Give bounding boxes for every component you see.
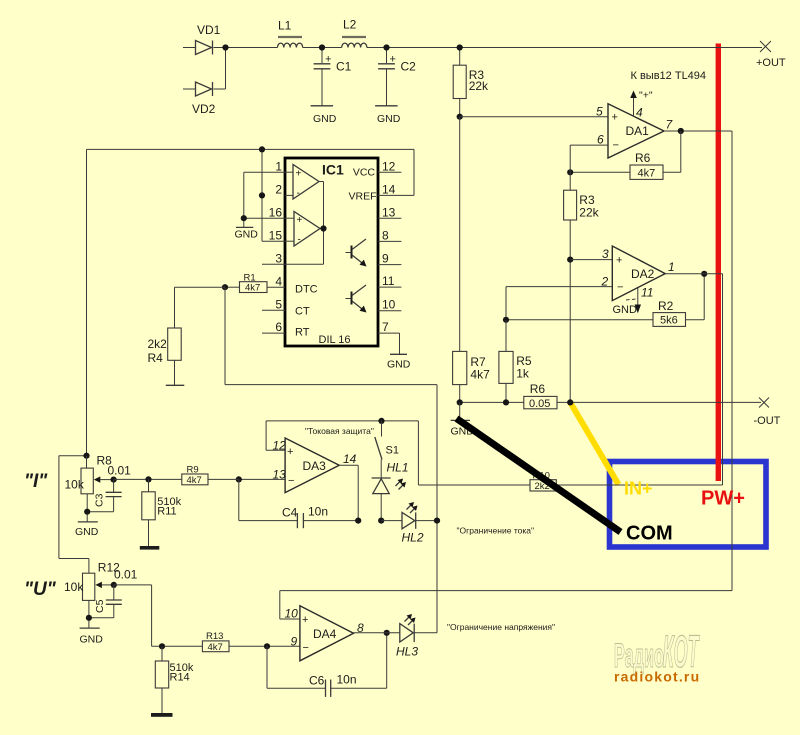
svg-text:"U": "U" xyxy=(24,579,57,600)
svg-text:R1: R1 xyxy=(244,273,256,284)
ground (IC1 pins 1,16) xyxy=(235,227,259,240)
potentiometer R12 (10k) xyxy=(64,561,120,628)
IC U1 TL494 body xyxy=(285,158,378,346)
svg-text:11: 11 xyxy=(382,274,395,288)
wire: U wiper to R13 rail xyxy=(114,585,203,646)
node: DA2 output xyxy=(701,271,707,277)
op-amp DA4 xyxy=(285,606,365,661)
wire: DA2 pin3 input xyxy=(570,259,612,261)
wire: pins 1/16 to GND xyxy=(244,172,285,227)
resistor R6 (4k7 feedback) xyxy=(570,151,681,180)
node: R8 wiper xyxy=(111,477,117,483)
diode VD1 xyxy=(196,23,221,55)
ground (R11, chassis bar) xyxy=(140,546,160,550)
node: DA1 output xyxy=(678,128,684,134)
wire: -OUT rail xyxy=(460,401,761,403)
node: R3 / DA1 pin5 xyxy=(457,114,463,120)
svg-text:−: − xyxy=(613,140,619,152)
svg-text:+: + xyxy=(287,446,293,458)
svg-text:"I": "I" xyxy=(24,471,48,492)
svg-text:2k2: 2k2 xyxy=(148,337,168,351)
svg-text:RT: RT xyxy=(295,327,310,339)
svg-text:-: - xyxy=(297,188,300,199)
node: amp2 output tie xyxy=(320,225,326,231)
svg-text:2: 2 xyxy=(275,183,282,197)
svg-text:C1: C1 xyxy=(336,60,352,74)
diode VD2 xyxy=(183,82,226,116)
svg-text:DA1: DA1 xyxy=(626,124,650,138)
svg-text:PW+: PW+ xyxy=(701,488,745,510)
svg-text:DIL 16: DIL 16 xyxy=(319,334,351,346)
wire: DA1 feedback drop xyxy=(680,131,682,172)
svg-text:4k7: 4k7 xyxy=(187,475,202,486)
IC1 right pin stubs and numbers xyxy=(378,160,414,335)
svg-text:+: + xyxy=(325,54,331,66)
svg-text:"+": "+" xyxy=(639,90,653,102)
wire: DA3 pin13 input xyxy=(239,478,285,480)
node: DA3 out / LED rail xyxy=(355,518,361,524)
node: R14 tap xyxy=(159,643,165,649)
ground (DA2 pin11) xyxy=(613,288,642,316)
op-amp DA1 xyxy=(596,104,674,158)
svg-text:R4: R4 xyxy=(148,351,164,365)
svg-text:GND: GND xyxy=(377,113,401,125)
op-amp IC1 error amp 2 xyxy=(285,212,320,247)
svg-text:22k: 22k xyxy=(579,206,599,220)
svg-text:0.05: 0.05 xyxy=(529,398,550,410)
svg-text:+: + xyxy=(612,112,618,124)
svg-text:IN+: IN+ xyxy=(624,479,653,499)
svg-text:"Токовая защита": "Токовая защита" xyxy=(305,426,374,436)
resistor R1 (4k7 on DTC) xyxy=(225,273,285,294)
resistor R10 (2k2) xyxy=(530,471,723,493)
svg-text:HL2: HL2 xyxy=(402,531,424,545)
ground (R14, chassis bar) xyxy=(151,713,173,717)
svg-text:1: 1 xyxy=(668,260,675,274)
resistor R13 (4k7) xyxy=(202,631,300,653)
resistor R3 (upper 22k) xyxy=(453,48,489,117)
capacitor C6 (10n) xyxy=(267,633,387,697)
svg-text:0.01: 0.01 xyxy=(108,464,132,478)
node: DA2 feedback xyxy=(503,317,509,323)
resistor R14 (510k) xyxy=(155,646,194,713)
node: HL1 / rail xyxy=(378,518,384,524)
node: C1 tap xyxy=(319,44,325,50)
svg-text:-: - xyxy=(298,235,301,246)
node: R12 wiper xyxy=(111,582,117,588)
potentiometer R8 (10k) xyxy=(65,454,114,522)
svg-text:DTC: DTC xyxy=(295,284,318,296)
svg-text:R11: R11 xyxy=(157,506,176,518)
svg-text:9: 9 xyxy=(382,252,389,266)
svg-text:К выв12 TL494: К выв12 TL494 xyxy=(631,70,707,82)
op-amp DA2 xyxy=(601,246,675,301)
node: pin2 junction xyxy=(259,192,265,198)
wire: DA4 output to HL3 xyxy=(354,632,400,634)
svg-text:VD1: VD1 xyxy=(197,23,221,37)
svg-text:GND: GND xyxy=(75,526,99,538)
svg-text:4k7: 4k7 xyxy=(208,642,223,653)
wire: DA1 output to right vertical xyxy=(664,130,732,132)
svg-text:4: 4 xyxy=(636,106,643,120)
svg-text:L1: L1 xyxy=(278,19,292,33)
svg-text:9: 9 xyxy=(291,635,298,649)
node: R7 / -OUT rail xyxy=(457,399,463,405)
resistor R4 (2k2) xyxy=(148,328,182,385)
ground (C2) xyxy=(375,106,401,125)
COM sense wire (thick black) xyxy=(457,419,621,533)
svg-text:HL3: HL3 xyxy=(396,645,418,659)
DA1 pin4 supply arrow xyxy=(630,90,653,117)
wire: DA1 pin6 input xyxy=(570,145,608,172)
svg-text:+: + xyxy=(296,169,302,180)
+OUT terminal xyxy=(756,41,786,69)
node: feedback / R3 lower xyxy=(567,169,573,175)
transistor Q1 (IC1 internal) xyxy=(346,239,367,267)
svg-text:13: 13 xyxy=(382,206,396,220)
node: DA4 pin9 xyxy=(264,643,270,649)
ground (C1) xyxy=(311,106,337,125)
capacitor C3 (0.01) xyxy=(87,464,131,512)
wire: DA2 output to IN+ drop xyxy=(665,274,722,485)
wire: amp outputs to pin3 xyxy=(285,182,324,265)
svg-text:R2: R2 xyxy=(658,299,674,313)
ground (R4) xyxy=(166,384,185,386)
svg-text:11: 11 xyxy=(641,286,653,300)
svg-text:CT: CT xyxy=(295,306,310,318)
svg-text:8: 8 xyxy=(382,229,389,243)
IC1 left pin stubs and numbers xyxy=(262,160,285,335)
svg-text:5k6: 5k6 xyxy=(660,315,678,327)
svg-text:3: 3 xyxy=(602,247,609,261)
svg-text:GND: GND xyxy=(313,113,337,125)
svg-text:7: 7 xyxy=(382,320,389,334)
wire: DA1 pin5 input xyxy=(460,116,608,118)
svg-text:4k7: 4k7 xyxy=(470,368,490,382)
wire: DTC node down and across to LED column xyxy=(225,287,437,633)
svg-text:GND: GND xyxy=(235,229,259,241)
capacitor C1 (polarized) xyxy=(314,48,352,106)
svg-text:−: − xyxy=(303,642,309,654)
resistor R5 (1k) xyxy=(499,320,532,403)
IN+ sense wire (thick yellow) xyxy=(570,402,618,484)
svg-text:R6: R6 xyxy=(635,151,651,165)
wire: pins 2/15 tie to VREF xyxy=(261,149,263,241)
capacitor C4 (10n) xyxy=(239,479,358,528)
resistor R9 (4k7) xyxy=(182,465,239,486)
svg-text:C2: C2 xyxy=(401,60,417,74)
svg-text:L2: L2 xyxy=(343,18,357,32)
wire: DA3 output xyxy=(339,465,358,520)
-OUT terminal xyxy=(754,398,781,428)
svg-text:4k7: 4k7 xyxy=(638,168,656,180)
wire: wiper to R9 xyxy=(114,478,182,480)
svg-text:14: 14 xyxy=(382,183,396,197)
op-amp DA3 xyxy=(273,438,357,493)
svg-text:"Ограничение напряжения": "Ограничение напряжения" xyxy=(447,622,555,632)
svg-text:DA3: DA3 xyxy=(303,459,327,473)
ground (R12) xyxy=(80,628,104,645)
node: DTC node xyxy=(222,284,228,290)
LED HL1 xyxy=(372,460,409,521)
svg-text:C3: C3 xyxy=(94,493,106,507)
svg-text:12: 12 xyxy=(382,160,396,174)
svg-text:+: + xyxy=(297,215,303,226)
op-amp IC1 error amp 1 xyxy=(285,165,319,200)
inductor L1 xyxy=(278,19,303,48)
svg-text:3: 3 xyxy=(275,252,282,266)
PW+ power wire (thick red) xyxy=(716,44,721,482)
svg-text:15: 15 xyxy=(269,229,283,243)
svg-text:C5: C5 xyxy=(94,599,106,613)
node: +OUT rail / R3 xyxy=(457,44,463,50)
svg-text:5: 5 xyxy=(596,105,603,119)
resistor R3 (lower 22k) xyxy=(564,172,600,402)
wire: VD1/VD2 cathode join xyxy=(225,48,227,90)
svg-text:radiokot.ru: radiokot.ru xyxy=(614,669,700,685)
svg-text:C6: C6 xyxy=(309,674,325,688)
svg-text:10n: 10n xyxy=(337,673,357,687)
node: DA2 pin3 xyxy=(567,257,573,263)
svg-text:GND: GND xyxy=(80,634,104,646)
svg-text:GND: GND xyxy=(387,359,411,371)
resistor R7 (4k7) xyxy=(453,117,490,403)
svg-text:VREF: VREF xyxy=(348,191,376,203)
svg-text:C4: C4 xyxy=(282,506,298,520)
svg-text:1: 1 xyxy=(275,160,282,174)
svg-text:10n: 10n xyxy=(308,505,328,519)
capacitor C2 (polarized) xyxy=(378,48,416,106)
resistor R2 (5k6) xyxy=(653,274,704,327)
svg-text:0.01: 0.01 xyxy=(114,568,138,582)
wire: DA4 pin10 loop to DA1 line xyxy=(280,591,732,619)
resistor R11 (510k) xyxy=(142,479,182,546)
connector block (blue PCB box) xyxy=(610,462,767,548)
svg-text:VD2: VD2 xyxy=(192,102,216,116)
capacitor C5 (0.01) xyxy=(89,568,138,618)
svg-text:10: 10 xyxy=(285,607,299,621)
node: C2 tap xyxy=(383,44,389,50)
svg-text:R14: R14 xyxy=(170,672,190,684)
svg-text:6: 6 xyxy=(275,320,282,334)
LED HL2 xyxy=(381,502,437,545)
svg-text:+OUT: +OUT xyxy=(756,57,786,69)
node: DA4 output xyxy=(384,630,390,636)
node: diode junction xyxy=(222,44,228,50)
svg-text:DA2: DA2 xyxy=(631,267,655,281)
svg-text:R13: R13 xyxy=(206,631,223,642)
node: shunt / yellow tap xyxy=(567,399,573,405)
wire: I/U reference feed xyxy=(59,456,89,574)
wire: DA3 pin12 loop xyxy=(266,421,530,485)
svg-text:"Ограничение тока": "Ограничение тока" xyxy=(457,526,535,536)
node: VREF rail tap xyxy=(259,146,265,152)
wire: VREF rail (pin14 to left) xyxy=(87,149,415,455)
svg-text:DA4: DA4 xyxy=(313,627,337,641)
svg-text:16: 16 xyxy=(269,206,283,220)
node: R5 / -OUT rail xyxy=(503,399,509,405)
svg-text:22k: 22k xyxy=(469,79,489,93)
wire: top +OUT rail xyxy=(183,47,762,49)
svg-text:HL1: HL1 xyxy=(387,461,409,475)
svg-text:+: + xyxy=(302,614,308,626)
node: HL2 / LED column xyxy=(434,518,440,524)
svg-text:10k: 10k xyxy=(65,478,85,492)
ground (R8) xyxy=(75,522,99,538)
svg-text:1k: 1k xyxy=(516,367,530,381)
svg-text:S1: S1 xyxy=(386,445,399,457)
switch S1 xyxy=(375,421,399,460)
node: pin13 node xyxy=(236,476,242,482)
svg-text:IC1: IC1 xyxy=(322,162,344,178)
node: pin16 GND junction xyxy=(241,215,247,221)
ground (IC1 pin7) xyxy=(387,333,411,370)
node: S1 top xyxy=(378,418,384,424)
node: R8 bottom xyxy=(84,509,90,515)
svg-text:R9: R9 xyxy=(187,465,199,476)
watermark: Radio KOT xyxy=(614,628,700,685)
svg-text:GND: GND xyxy=(613,304,638,316)
resistor R6 (0.05 shunt) xyxy=(524,382,557,410)
svg-text:−: − xyxy=(617,282,623,294)
svg-text:+: + xyxy=(390,54,396,66)
transistor Q2 (IC1 internal) xyxy=(346,285,367,313)
svg-text:5: 5 xyxy=(275,298,282,312)
svg-text:4k7: 4k7 xyxy=(245,283,260,294)
svg-text:10k: 10k xyxy=(64,580,84,594)
wire: DA1 output down to DA4 pin10 rail xyxy=(731,131,733,591)
svg-text:6: 6 xyxy=(597,133,604,147)
svg-text:−: − xyxy=(288,475,294,487)
svg-text:+: + xyxy=(616,255,622,267)
wire: DA2 pin2 input loop xyxy=(506,287,653,320)
node: R12 bottom xyxy=(86,615,92,621)
inductor L2 xyxy=(342,18,367,48)
LED HL3 xyxy=(396,614,437,659)
svg-text:COM: COM xyxy=(626,523,673,545)
wire: DTC node to R4 xyxy=(175,287,226,328)
svg-text:14: 14 xyxy=(343,452,357,466)
svg-text:4: 4 xyxy=(275,275,282,289)
svg-text:VCC: VCC xyxy=(353,167,376,179)
svg-text:R6: R6 xyxy=(530,382,546,396)
node: R8 top xyxy=(83,453,89,459)
node: R11 tap xyxy=(145,476,151,482)
svg-text:10: 10 xyxy=(382,298,396,312)
svg-text:12: 12 xyxy=(273,439,287,453)
ground (-OUT rail) xyxy=(451,402,475,437)
svg-text:-OUT: -OUT xyxy=(754,415,781,427)
